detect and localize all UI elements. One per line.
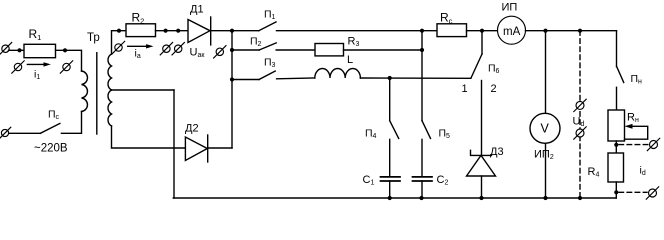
wire secondary center tap: [112, 89, 175, 91]
wire D2 cathode to bus: [208, 147, 232, 149]
node dot rail bus2: [420, 29, 424, 33]
node (junction dot): [17, 48, 21, 52]
resistor R2: [126, 24, 156, 37]
dashed measurement line Ud: [579, 31, 581, 198]
node dot bus top: [230, 29, 234, 33]
terminal T11: [647, 138, 659, 150]
svg-text:П2: П2: [250, 36, 262, 49]
transformer secondary lower winding: [108, 90, 111, 126]
wire P6 contact2 to D3: [481, 81, 483, 156]
switch P2: [232, 43, 276, 50]
zener diode D3: [467, 150, 496, 176]
switch P3: [232, 71, 275, 79]
wire R1 to transformer primary: [56, 50, 82, 71]
terminal T9 (Ud top): [574, 99, 586, 111]
svg-text:Ud: Ud: [573, 116, 585, 129]
switch P5: [422, 121, 431, 139]
wire secondary top to rail: [112, 31, 127, 54]
svg-text:R3: R3: [348, 36, 360, 49]
svg-text:С1: С1: [363, 174, 375, 187]
terminal T6: [160, 43, 172, 55]
voltmeter IP2 (V): [530, 113, 560, 143]
inductor L: [315, 68, 361, 78]
node dot L / C1 branch: [388, 76, 392, 80]
node dot R3 bus2: [420, 48, 424, 52]
wire D3 to bus: [481, 176, 483, 198]
wire P3 to L: [277, 77, 315, 80]
rheostat tap loop with arrow: [625, 124, 648, 139]
svg-text:Д1: Д1: [190, 4, 204, 16]
svg-text:С2: С2: [437, 174, 449, 187]
svg-text:~220В: ~220В: [34, 143, 68, 155]
transformer core: [96, 53, 98, 134]
wire V meter branch upper: [545, 31, 547, 114]
terminal T3 under R1 right: [60, 61, 72, 73]
svg-text:Д2: Д2: [185, 123, 199, 135]
switch P1: [259, 22, 276, 31]
svg-text:V: V: [541, 122, 550, 136]
svg-text:Rн: Rн: [627, 112, 639, 125]
capacitor C1: [381, 177, 401, 181]
node dot bus V: [543, 196, 547, 200]
svg-text:R4: R4: [588, 166, 600, 179]
svg-text:Пс: Пс: [48, 108, 60, 121]
terminal T2 under R1 left: [12, 61, 24, 73]
resistor R3: [315, 44, 344, 56]
switch Pn: [617, 67, 624, 83]
wire P5 to C2: [421, 139, 423, 176]
resistor Rn (rheostat): [608, 110, 625, 141]
transformer primary winding: [82, 71, 88, 112]
svg-text:П3: П3: [264, 57, 276, 70]
svg-text:Тр: Тр: [87, 32, 100, 44]
node dot bus row3: [230, 77, 234, 81]
svg-text:2: 2: [491, 83, 497, 95]
svg-text:i1: i1: [34, 69, 40, 82]
terminal T12: [646, 187, 658, 199]
wire L to P6 contact 1: [360, 77, 471, 79]
svg-text:ИП: ИП: [502, 2, 518, 14]
wire C1 to bus: [389, 181, 391, 198]
terminal T7: [172, 43, 184, 55]
bottom bus wire: [173, 197, 616, 199]
node dot V branch: [543, 29, 547, 33]
wire P4 to C1: [389, 139, 391, 176]
capacitor C2: [413, 177, 433, 181]
node dot: [164, 29, 168, 33]
wire primary bottom to switch Pc: [61, 112, 81, 134]
wire Rn to R4: [615, 141, 617, 153]
switch P6: [471, 31, 482, 78]
node dot: [176, 29, 180, 33]
wire tap drop to bottom bus: [173, 90, 175, 198]
wire C1 branch upper: [389, 78, 391, 121]
node dot R4 dashed: [614, 190, 618, 194]
wire D1 to node bus: [211, 30, 259, 32]
resistor R4: [608, 153, 624, 182]
node dot P6 pivot: [480, 29, 484, 33]
svg-text:1: 1: [462, 83, 468, 95]
wire Pn to Rn: [616, 87, 618, 110]
wire P1 to rail right: [277, 30, 438, 32]
node dot R1 right: [63, 48, 67, 52]
wire R4 to bus: [615, 182, 617, 198]
terminal T5 below rail: [112, 41, 124, 53]
svg-text:mA: mA: [503, 26, 521, 38]
svg-text:Д3: Д3: [490, 146, 504, 158]
wire mA to V branch: [526, 30, 617, 32]
terminal T10 (Ud bottom): [574, 127, 586, 139]
diode D2: [185, 135, 207, 162]
switch Pc (mains): [9, 123, 60, 133]
node dot bus row2: [230, 48, 234, 52]
terminal T1 (input, slashed circle): [0, 43, 12, 55]
svg-text:iа: iа: [135, 48, 141, 61]
node dot rail at secondary: [117, 29, 121, 33]
svg-text:Rс: Rс: [440, 11, 453, 26]
switch P4: [390, 121, 399, 139]
svg-text:ИП2: ИП2: [534, 149, 554, 162]
node dot bus C2: [419, 196, 423, 200]
wire R3 to bus2: [344, 49, 423, 51]
node dot bus Ud: [578, 196, 582, 200]
wire bus2 vertical (rail to C2): [421, 31, 423, 121]
ammeter IP (mA): [498, 16, 526, 44]
svg-text:R1: R1: [29, 27, 42, 42]
resistor Rc: [437, 24, 467, 37]
wire Pn branch from rail: [616, 31, 618, 67]
node dot bus C1: [388, 196, 392, 200]
wire Rc to mA: [467, 30, 498, 32]
wire secondary bottom to D2 anode: [112, 126, 186, 148]
svg-text:id: id: [640, 165, 646, 178]
resistor R1: [24, 44, 56, 57]
diode D1: [188, 17, 211, 45]
node dot bus D3: [479, 196, 483, 200]
svg-text:R2: R2: [132, 11, 145, 26]
svg-text:П1: П1: [264, 8, 276, 21]
dashed line to terminal bottom: [619, 191, 647, 193]
current arrow ia: [128, 44, 154, 48]
svg-text:Пн: Пн: [631, 73, 643, 86]
wire P2 to R3: [276, 49, 315, 51]
wire C2 to bus: [421, 181, 423, 198]
wire V meter to bus: [545, 143, 547, 198]
transformer secondary upper winding: [108, 54, 111, 90]
svg-text:П4: П4: [365, 127, 377, 140]
terminal T4 (mains input): [0, 127, 11, 139]
svg-text:L: L: [347, 54, 353, 66]
node dot Ud branch: [578, 29, 582, 33]
wire input to R1: [9, 49, 25, 51]
svg-text:П6: П6: [488, 63, 500, 76]
current arrow i1: [27, 62, 51, 66]
dashed line to terminal: [619, 144, 648, 146]
terminal T8: [214, 46, 226, 58]
wire node bus vertical: [231, 31, 233, 148]
wire R2 to D1: [156, 30, 189, 32]
svg-text:П5: П5: [439, 127, 451, 140]
node dot Rn-R4: [614, 143, 618, 147]
svg-text:Uак: Uак: [190, 47, 206, 60]
